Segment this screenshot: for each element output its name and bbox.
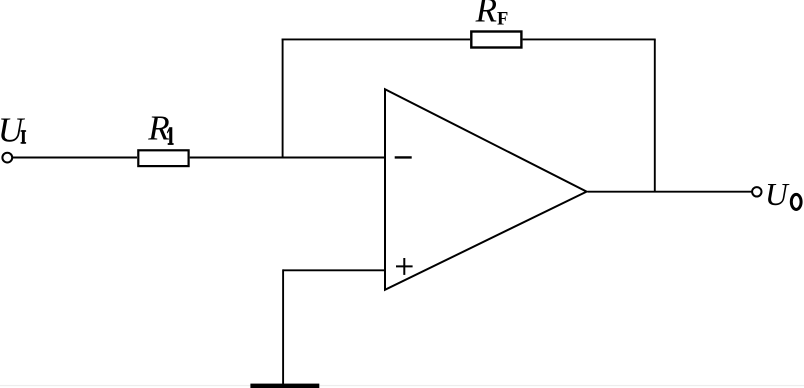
output terminal UO circle bbox=[752, 187, 761, 196]
baseline artifact line bbox=[0, 385, 804, 386]
wire: op-amp output bbox=[588, 191, 753, 193]
op-amp non-inverting input marker (plus) bbox=[396, 258, 413, 275]
wire: non-inverting input down to ground bbox=[282, 269, 284, 384]
wire: non-inverting input horizontal bbox=[283, 269, 384, 271]
ground bbox=[250, 384, 319, 388]
svg-text:R: R bbox=[475, 0, 497, 29]
resistor RF bbox=[471, 32, 521, 48]
label UI: subscript I bbox=[21, 130, 27, 144]
label UO: subscript O bbox=[791, 194, 801, 209]
input terminal UI circle bbox=[2, 153, 12, 163]
svg-text:F: F bbox=[497, 9, 508, 29]
wire: top feedback left segment bbox=[282, 38, 470, 40]
label R1: subscript 1 bbox=[167, 127, 174, 145]
wire: feedback vertical up from node A bbox=[282, 39, 284, 159]
wire: top feedback right segment bbox=[523, 38, 656, 40]
svg-text:U: U bbox=[765, 177, 790, 212]
wire: R1 to op-amp inverting input bbox=[190, 157, 385, 159]
op-amp inverting input marker (minus) bbox=[395, 156, 412, 158]
wire: input terminal to R1 bbox=[13, 157, 137, 159]
resistor R1 bbox=[138, 150, 188, 166]
op-amp U1 triangle bbox=[385, 89, 587, 290]
svg-text:R: R bbox=[147, 109, 169, 148]
wire: feedback vertical down to output node bbox=[654, 39, 656, 192]
